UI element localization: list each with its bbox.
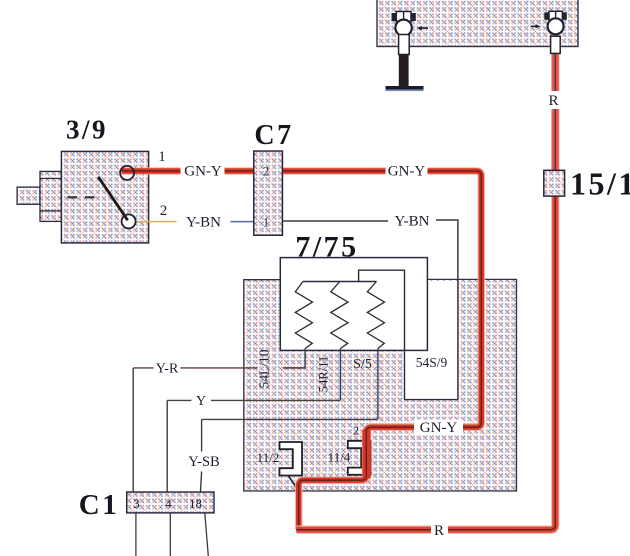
connector C7 body over wires <box>254 151 283 235</box>
svg-text:R: R <box>548 93 558 109</box>
switch contact 1 ring <box>120 166 134 180</box>
wire Y-SB <box>202 418 378 420</box>
wire GN-Y switch to C7 to corner (red) <box>122 171 482 530</box>
svg-text:54L/10: 54L/10 <box>257 349 272 388</box>
riser Y to C1 pin 4 <box>166 400 168 492</box>
connector C7 <box>254 151 283 235</box>
svg-text:Y-R: Y-R <box>156 362 179 377</box>
svg-text:2: 2 <box>160 203 168 219</box>
common feed to 54S/9 <box>359 270 458 399</box>
battery positive terminal <box>544 11 567 54</box>
switch contact fills <box>120 166 134 180</box>
element resistor 3 <box>367 282 384 349</box>
thermal fuse 11/4 <box>348 441 371 475</box>
battery 6/1 <box>377 0 578 47</box>
switch arm <box>98 177 128 221</box>
distribution box (right shaded box, 54S/9 area) <box>428 279 517 491</box>
wire Y-R <box>133 367 305 369</box>
svg-text:Y: Y <box>196 394 206 409</box>
splice mark x <box>289 476 298 489</box>
battery positive arrow <box>531 24 541 28</box>
svg-text:2: 2 <box>353 424 359 438</box>
switch dashes <box>68 196 95 198</box>
svg-text:11/4: 11/4 <box>328 450 351 465</box>
svg-text:54S/9: 54S/9 <box>416 355 448 370</box>
svg-text:18: 18 <box>189 496 202 511</box>
riser Y-R to C1 pin 3 <box>132 368 134 492</box>
wire below C1 pin 3 <box>135 513 137 556</box>
svg-text:2: 2 <box>263 165 269 179</box>
wire below C1 pin 18 <box>205 513 209 556</box>
svg-text:R: R <box>434 523 444 539</box>
svg-text:GN-Y: GN-Y <box>184 164 222 180</box>
svg-text:1: 1 <box>263 216 269 230</box>
lead to S/5 <box>377 349 379 420</box>
module box (seat heating module, left shaded box) <box>244 280 428 491</box>
svg-text:54R/11: 54R/11 <box>317 356 331 392</box>
battery negative arrow <box>417 26 429 30</box>
svg-text:4: 4 <box>165 496 172 511</box>
riser Y-SB to C1 pin 18 <box>201 419 202 492</box>
lead to 54L/10 <box>283 349 305 368</box>
svg-text:7/75: 7/75 <box>295 231 358 264</box>
svg-text:GN-Y: GN-Y <box>388 164 426 180</box>
svg-text:C1: C1 <box>79 489 119 521</box>
fuse 15/1 <box>544 170 565 196</box>
svg-text:Y-BN: Y-BN <box>394 214 429 230</box>
ground <box>386 86 424 90</box>
svg-text:3/9: 3/9 <box>66 115 108 145</box>
ground wire BL <box>399 54 409 87</box>
switch 3/9 <box>17 151 149 243</box>
svg-text:Y-BN: Y-BN <box>186 215 221 231</box>
wire Y-BN switch to C7 <box>136 221 177 223</box>
connector C1 <box>127 492 214 513</box>
white pocket around 54S/9 <box>428 281 458 399</box>
GN-Y dark core lines <box>122 171 482 530</box>
svg-text:15/1: 15/1 <box>570 166 630 202</box>
element resistor 2 <box>331 282 348 349</box>
wire Y <box>167 399 340 401</box>
wire below C1 pin 4 <box>169 513 171 556</box>
lead to 54R/11 <box>339 349 341 401</box>
svg-text:Y-SB: Y-SB <box>188 454 219 470</box>
element top bus <box>303 281 377 283</box>
battery negative terminal <box>392 11 416 55</box>
svg-text:11/2: 11/2 <box>257 450 280 465</box>
svg-text:1: 1 <box>158 149 166 165</box>
element resistor 1 <box>295 282 312 349</box>
label GN-Y 3 <box>414 420 463 436</box>
svg-text:3: 3 <box>133 496 140 511</box>
thermal fuse 11/2 <box>280 442 303 476</box>
svg-text:C7: C7 <box>254 120 293 151</box>
wire Y-BN C7 to 54S/9 <box>282 220 458 400</box>
wire R bottom rail (red) <box>296 53 555 530</box>
svg-text:S/5: S/5 <box>353 357 372 372</box>
heating element unit 7/75 (white box) <box>280 258 427 351</box>
switch contact 2 ring <box>122 214 136 228</box>
wire GN-Y through 11/4 (wide overlay) <box>362 430 371 479</box>
svg-text:GN-Y: GN-Y <box>420 420 458 436</box>
